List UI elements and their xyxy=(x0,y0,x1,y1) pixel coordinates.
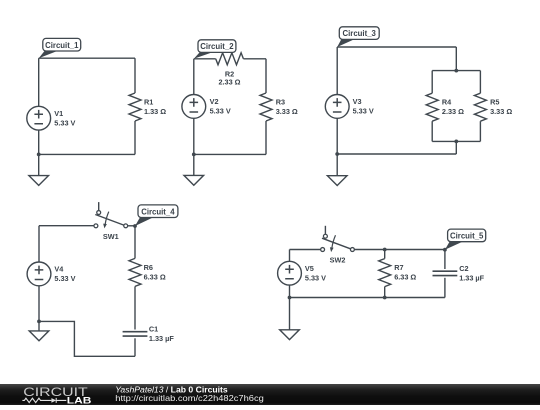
wire circuit2 top right xyxy=(243,58,266,60)
wire circuit2 bottom xyxy=(194,153,266,155)
wire circuit4 R6 to C1 xyxy=(134,286,136,329)
junction circuit3 top tee xyxy=(454,69,458,73)
resistor R1 xyxy=(129,93,166,121)
wire circuit5 bottom xyxy=(290,297,445,299)
svg-text:5.33 V: 5.33 V xyxy=(54,119,75,128)
svg-text:R1: R1 xyxy=(144,97,153,106)
svg-text:6.33 Ω: 6.33 Ω xyxy=(144,272,166,281)
ground circuit3 xyxy=(327,154,347,186)
wire circuit3 R5 upper xyxy=(479,71,481,94)
node Circuit_1 label flag xyxy=(39,38,81,58)
wire circuit2 top left xyxy=(194,58,216,60)
svg-text:2.33 Ω: 2.33 Ω xyxy=(218,77,240,86)
wire circuit2 right upper xyxy=(265,59,267,93)
svg-text:R6: R6 xyxy=(144,263,153,272)
resistor R4 xyxy=(426,93,464,121)
ground circuit2 xyxy=(184,154,204,185)
wire circuit3 R4 lower xyxy=(431,121,433,141)
junction circuit4 ground node xyxy=(37,320,41,324)
voltage source V1 xyxy=(27,106,76,130)
wire circuit3 bottom xyxy=(337,153,456,155)
wire circuit5 left upper xyxy=(289,250,291,262)
wire circuit5 switch to C2 xyxy=(354,249,445,251)
junction circuit5 ground node xyxy=(288,296,292,300)
svg-text:V5: V5 xyxy=(305,264,314,273)
wire circuit3 left upper xyxy=(336,47,338,95)
node Circuit_4 label flag xyxy=(135,205,178,226)
svg-text:5.33 V: 5.33 V xyxy=(210,107,231,116)
ground circuit5 xyxy=(280,298,300,340)
svg-text:V4: V4 xyxy=(54,265,64,274)
capacitor C2 xyxy=(433,264,485,283)
svg-text:Circuit_3: Circuit_3 xyxy=(343,29,377,38)
wire circuit2 right lower xyxy=(265,121,267,154)
svg-text:V3: V3 xyxy=(353,97,362,106)
svg-text:3.33 Ω: 3.33 Ω xyxy=(490,107,512,116)
svg-text:Circuit_5: Circuit_5 xyxy=(450,232,484,241)
junction circuit4 node xyxy=(133,224,137,228)
junction circuit5 R7 top xyxy=(383,248,387,252)
voltage source V2 xyxy=(182,95,231,119)
svg-text:6.33 Ω: 6.33 Ω xyxy=(394,273,416,282)
wire circuit4 top left xyxy=(39,225,94,227)
svg-text:V2: V2 xyxy=(210,97,219,106)
svg-text:1.33 µF: 1.33 µF xyxy=(149,334,174,343)
resistor R6 xyxy=(129,258,166,286)
svg-text:1.33 Ω: 1.33 Ω xyxy=(144,107,166,116)
node Circuit_5 label flag xyxy=(445,229,486,250)
wire circuit5 C2 upper xyxy=(444,250,446,270)
svg-text:Circuit_2: Circuit_2 xyxy=(200,42,234,51)
svg-text:5.33 V: 5.33 V xyxy=(54,274,75,283)
CircuitLab logo diode xyxy=(51,398,66,403)
wire circuit4 down to R6 xyxy=(134,226,136,258)
svg-text:http://circuitlab.com/c22h482c: http://circuitlab.com/c22h482c7h6cg xyxy=(115,393,264,403)
footer title text xyxy=(115,385,228,395)
wire circuit1 right lower xyxy=(134,121,136,154)
svg-text:LAB: LAB xyxy=(67,395,92,405)
node Circuit_3 label flag xyxy=(337,27,379,47)
ground circuit1 xyxy=(29,154,49,185)
wire circuit5 left lower xyxy=(289,285,291,297)
wire circuit3 top bar xyxy=(432,70,480,72)
switch SW1 xyxy=(94,202,128,241)
svg-text:R3: R3 xyxy=(276,97,285,106)
svg-text:5.33 V: 5.33 V xyxy=(305,274,326,283)
svg-text:2.33 Ω: 2.33 Ω xyxy=(442,107,464,116)
svg-text:Circuit_4: Circuit_4 xyxy=(141,207,175,216)
svg-text:1.33 µF: 1.33 µF xyxy=(459,274,484,283)
wire circuit3 R4 upper xyxy=(431,71,433,94)
switch SW2 xyxy=(321,226,355,265)
wire circuit4 left lower xyxy=(38,286,40,322)
resistor R5 xyxy=(474,93,512,121)
wire circuit5 R7 lower xyxy=(384,287,386,298)
voltage source V3 xyxy=(325,95,374,119)
wire circuit2 left lower xyxy=(193,118,195,154)
junction circuit1 bottom node xyxy=(37,153,41,157)
wire circuit5 C2 lower xyxy=(444,278,446,298)
svg-text:R4: R4 xyxy=(442,98,452,107)
wire circuit3 top xyxy=(337,46,456,48)
resistor R2 xyxy=(216,53,244,87)
wire circuit2 left upper xyxy=(193,59,195,95)
capacitor C1 xyxy=(123,325,175,344)
svg-text:V1: V1 xyxy=(54,109,63,118)
svg-text:Circuit_1: Circuit_1 xyxy=(45,41,79,50)
junction circuit3 bottom tee xyxy=(454,140,458,144)
junction circuit2 bottom node xyxy=(192,153,196,157)
wire circuit4 switch to node xyxy=(128,225,135,227)
svg-text:R5: R5 xyxy=(490,98,499,107)
ground circuit4 xyxy=(29,321,49,340)
svg-text:C1: C1 xyxy=(149,325,158,334)
wire circuit3 R5 lower xyxy=(479,121,481,141)
junction circuit5 node xyxy=(443,248,447,252)
wire circuit1 right upper xyxy=(134,58,136,93)
svg-text:C2: C2 xyxy=(459,264,468,273)
wire circuit5 top left xyxy=(290,249,321,251)
svg-text:SW1: SW1 xyxy=(103,232,119,241)
node Circuit_2 label flag xyxy=(194,40,236,59)
junction circuit5 R7 bottom xyxy=(383,296,387,300)
wire circuit4 C1 down xyxy=(134,338,136,356)
wire circuit3 feed down xyxy=(455,47,457,71)
wire circuit1 left upper xyxy=(38,58,40,106)
wire circuit5 R7 upper xyxy=(384,250,386,259)
wire circuit3 left lower xyxy=(336,118,338,154)
svg-text:R7: R7 xyxy=(394,263,403,272)
svg-text:SW2: SW2 xyxy=(330,256,346,265)
wire circuit3 stub down xyxy=(455,141,457,154)
CircuitLab logo resistor wire xyxy=(22,398,51,402)
svg-text:5.33 V: 5.33 V xyxy=(353,107,374,116)
junction circuit3 bottom node xyxy=(335,152,339,156)
svg-text:3.33 Ω: 3.33 Ω xyxy=(276,107,298,116)
wire circuit4 left upper xyxy=(38,226,40,262)
resistor R3 xyxy=(260,93,298,121)
wire circuit4 bottom return xyxy=(39,321,135,356)
voltage source V4 xyxy=(27,262,76,286)
voltage source V5 xyxy=(278,261,327,285)
resistor R7 xyxy=(379,259,417,287)
wire circuit1 bottom xyxy=(39,153,135,155)
wire circuit3 bottom bar xyxy=(432,140,480,142)
wire circuit1 left lower xyxy=(38,130,40,154)
wire circuit1 top xyxy=(39,57,135,59)
